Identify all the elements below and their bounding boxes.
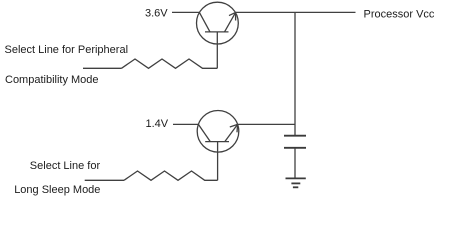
wire Q2 base lead down to resistor R2 bbox=[217, 142, 219, 181]
wire from 1.4V label to transistor Q2 bbox=[173, 123, 198, 125]
svg-text:Select Line for: Select Line for bbox=[30, 160, 101, 172]
svg-text:3.6V: 3.6V bbox=[145, 7, 168, 19]
label Compatibility Mode bbox=[5, 74, 99, 86]
svg-text:Long Sleep Mode: Long Sleep Mode bbox=[14, 184, 100, 196]
ground bbox=[286, 178, 306, 187]
transistor Q1 bbox=[197, 2, 239, 44]
wire Q1 base lead down to resistor R1 bbox=[216, 32, 218, 68]
label Long Sleep Mode bbox=[14, 184, 100, 196]
capacitor C1 top plate bbox=[284, 135, 306, 137]
svg-text:1.4V: 1.4V bbox=[146, 118, 169, 130]
label Select Line for Peripheral bbox=[5, 44, 129, 56]
wire capacitor to ground bbox=[294, 148, 296, 179]
svg-text:Select Line for Peripheral: Select Line for Peripheral bbox=[5, 44, 129, 56]
wire from Select Line for Peripheral bbox=[83, 67, 122, 69]
label Select Line for bbox=[30, 160, 101, 172]
resistor R1 bbox=[122, 59, 218, 68]
label Processor Vcc bbox=[364, 8, 435, 20]
vertical rail to capacitor bbox=[294, 12, 296, 135]
wire Q1 collector to top rail / Processor Vcc bbox=[236, 11, 356, 13]
wire from 3.6V label to transistor Q1 bbox=[172, 11, 199, 13]
wire Q2 emitter to rail junction bbox=[238, 123, 295, 125]
wire from Select Line for Long Sleep Mode bbox=[85, 179, 124, 181]
transistor Q2 bbox=[197, 111, 239, 153]
resistor R2 bbox=[124, 171, 218, 180]
svg-text:Processor Vcc: Processor Vcc bbox=[364, 8, 435, 20]
capacitor C1 bottom plate bbox=[284, 147, 306, 149]
label 3.6V bbox=[145, 7, 168, 19]
svg-text:Compatibility Mode: Compatibility Mode bbox=[5, 74, 99, 86]
label 1.4V bbox=[146, 118, 169, 130]
